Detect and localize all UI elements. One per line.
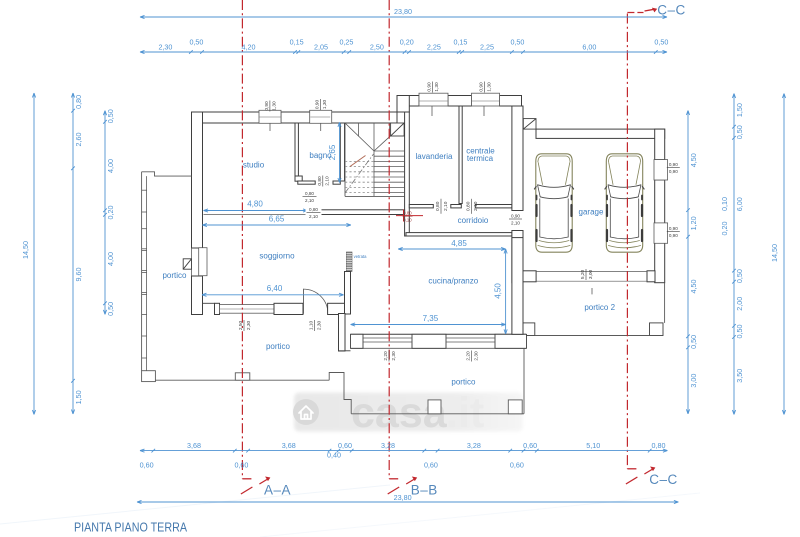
svg-text:0,10: 0,10 [403, 218, 412, 223]
svg-text:2,20: 2,20 [466, 351, 472, 361]
svg-text:1,50: 1,50 [74, 390, 83, 404]
svg-text:4,00: 4,00 [106, 159, 115, 173]
svg-text:2,00: 2,00 [735, 297, 744, 311]
svg-text:0,80: 0,80 [317, 176, 323, 186]
svg-text:2,10: 2,10 [305, 198, 314, 203]
svg-text:0,90: 0,90 [264, 101, 270, 111]
svg-text:2,30: 2,30 [391, 351, 397, 361]
svg-text:portico: portico [451, 378, 476, 387]
svg-text:4,50: 4,50 [689, 280, 698, 294]
svg-text:6,00: 6,00 [582, 43, 596, 52]
svg-text:2,05: 2,05 [314, 43, 328, 52]
svg-text:0,90: 0,90 [479, 82, 485, 92]
svg-text:2,10: 2,10 [325, 176, 331, 186]
svg-text:0,90: 0,90 [511, 213, 520, 218]
svg-text:4,00: 4,00 [106, 252, 115, 266]
svg-text:2,30: 2,30 [316, 321, 322, 331]
svg-text:0,50: 0,50 [106, 302, 115, 316]
svg-text:0,20: 0,20 [106, 206, 115, 220]
svg-text:0,90: 0,90 [669, 169, 678, 174]
svg-text:0,50: 0,50 [510, 38, 524, 47]
svg-text:0,20: 0,20 [720, 222, 729, 236]
svg-text:3,00: 3,00 [689, 374, 698, 388]
svg-text:0,90: 0,90 [314, 100, 320, 110]
svg-text:.it: .it [446, 389, 484, 437]
svg-text:3,50: 3,50 [735, 369, 744, 383]
svg-text:2,60: 2,60 [74, 133, 83, 147]
svg-text:0,25: 0,25 [339, 38, 353, 47]
svg-text:5,10: 5,10 [586, 441, 600, 450]
svg-text:C–C: C–C [649, 472, 678, 487]
svg-text:3,28: 3,28 [381, 441, 395, 450]
svg-text:0,50: 0,50 [735, 269, 744, 283]
svg-text:3,00: 3,00 [588, 270, 594, 280]
svg-text:0,80: 0,80 [305, 191, 314, 196]
svg-text:2,30: 2,30 [246, 321, 252, 331]
svg-text:2,50: 2,50 [370, 43, 384, 52]
svg-text:1,30: 1,30 [272, 101, 278, 111]
svg-text:0,90: 0,90 [669, 226, 678, 231]
svg-text:portico 2: portico 2 [584, 303, 615, 312]
svg-text:0,10: 0,10 [720, 197, 729, 211]
svg-text:23,80: 23,80 [394, 7, 412, 16]
svg-text:0,80: 0,80 [465, 201, 471, 211]
svg-text:6,00: 6,00 [735, 197, 744, 211]
svg-text:0,80: 0,80 [435, 201, 441, 211]
svg-text:C–C: C–C [657, 3, 686, 18]
svg-text:studio: studio [243, 161, 265, 170]
svg-text:9,60: 9,60 [74, 268, 83, 282]
svg-text:0,80: 0,80 [652, 441, 666, 450]
svg-text:portico: portico [266, 342, 291, 351]
svg-text:2,10: 2,10 [511, 220, 520, 225]
svg-text:soggiorno: soggiorno [259, 251, 295, 260]
svg-text:1,30: 1,30 [434, 82, 440, 92]
svg-text:1,30: 1,30 [486, 82, 492, 92]
svg-text:0,90: 0,90 [426, 82, 432, 92]
svg-text:cucina/pranzo: cucina/pranzo [428, 276, 478, 285]
svg-text:0,60: 0,60 [140, 461, 154, 470]
svg-text:termica: termica [467, 154, 494, 163]
svg-text:4,85: 4,85 [451, 239, 467, 248]
svg-text:2,20: 2,20 [383, 351, 389, 361]
svg-text:vetrata: vetrata [354, 254, 367, 259]
svg-text:bagno: bagno [309, 151, 332, 160]
svg-text:0,40: 0,40 [327, 451, 341, 460]
svg-text:B–B: B–B [411, 483, 438, 498]
svg-text:0,20: 0,20 [400, 38, 414, 47]
svg-text:5,20: 5,20 [580, 270, 586, 280]
svg-text:4,50: 4,50 [494, 283, 503, 299]
svg-text:2,25: 2,25 [427, 43, 441, 52]
svg-text:6,40: 6,40 [267, 284, 283, 293]
svg-text:0,80: 0,80 [403, 211, 412, 216]
svg-text:2,50: 2,50 [238, 321, 244, 331]
svg-text:2,25: 2,25 [480, 43, 494, 52]
svg-text:1,20: 1,20 [689, 216, 698, 230]
svg-text:1,50: 1,50 [735, 103, 744, 117]
svg-text:corridoio: corridoio [458, 216, 489, 225]
svg-text:0,90: 0,90 [669, 233, 678, 238]
svg-text:0,50: 0,50 [106, 109, 115, 123]
svg-text:3,28: 3,28 [467, 441, 481, 450]
svg-text:A–A: A–A [264, 483, 291, 498]
svg-text:7,35: 7,35 [423, 314, 439, 323]
svg-text:0,15: 0,15 [453, 38, 467, 47]
svg-text:14,50: 14,50 [21, 241, 30, 259]
svg-text:0,90: 0,90 [669, 162, 678, 167]
svg-text:2,30: 2,30 [158, 43, 172, 52]
svg-text:23,80: 23,80 [394, 493, 412, 502]
svg-text:0,80: 0,80 [74, 95, 83, 109]
svg-text:0,60: 0,60 [424, 461, 438, 470]
svg-text:0,60: 0,60 [338, 441, 352, 450]
svg-text:3,68: 3,68 [282, 441, 296, 450]
svg-text:0,50: 0,50 [735, 324, 744, 338]
svg-text:2,30: 2,30 [473, 351, 479, 361]
svg-text:0,50: 0,50 [735, 125, 744, 139]
svg-text:0,15: 0,15 [290, 38, 304, 47]
svg-text:4,20: 4,20 [242, 43, 256, 52]
svg-text:2,10: 2,10 [443, 201, 449, 211]
svg-text:4,50: 4,50 [689, 153, 698, 167]
svg-text:2,10: 2,10 [473, 201, 479, 211]
svg-text:3,68: 3,68 [187, 441, 201, 450]
svg-text:2,10: 2,10 [309, 214, 318, 219]
svg-text:garage: garage [579, 208, 604, 217]
svg-text:1,30: 1,30 [322, 100, 328, 110]
svg-text:PIANTA PIANO TERRA: PIANTA PIANO TERRA [74, 520, 187, 535]
svg-text:0,60: 0,60 [234, 461, 248, 470]
svg-text:0,50: 0,50 [654, 38, 668, 47]
svg-text:0,60: 0,60 [523, 441, 537, 450]
svg-text:6,65: 6,65 [269, 215, 285, 224]
svg-text:lavanderia: lavanderia [416, 152, 453, 161]
svg-text:14,50: 14,50 [770, 244, 779, 262]
svg-text:0,80: 0,80 [309, 207, 318, 212]
svg-text:1,10: 1,10 [309, 321, 315, 331]
svg-text:portico: portico [162, 271, 187, 280]
svg-text:0,60: 0,60 [510, 461, 524, 470]
svg-text:0,50: 0,50 [689, 335, 698, 349]
svg-text:0,50: 0,50 [189, 38, 203, 47]
svg-text:4,80: 4,80 [247, 200, 263, 209]
